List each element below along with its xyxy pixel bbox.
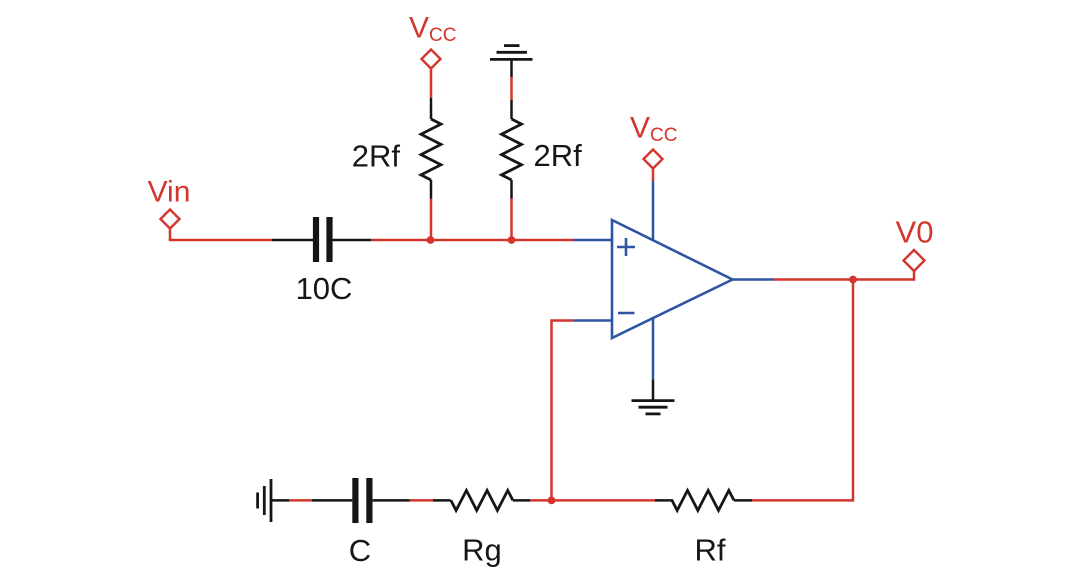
ground (op-amp) [632,379,675,414]
wire output node down to feedback corner (red) [752,280,853,501]
svg-text:Rg: Rg [462,533,502,568]
node B junction dot [508,236,516,244]
wire Vcc terminal to resistor 2Rf left (red) [430,69,433,99]
wire capacitor C right lead (black) [373,499,410,502]
node D junction dot [548,497,556,505]
wire Vcc to op-amp top (blue) [652,181,655,241]
terminal Vin (diamond) [161,210,180,229]
op-amp U1 [612,220,733,338]
wire capacitor 10C right lead (black) [333,239,371,242]
wire inverting input segment (blue) [574,319,612,322]
wire Vcc diamond stub (red) [652,169,655,182]
wire V0 stub [913,271,916,281]
svg-text:10C: 10C [296,271,353,306]
wire node D to resistor Rg (red) [530,499,551,502]
svg-text:Rf: Rf [695,533,726,568]
wire noninverting input segment (blue) [574,239,612,242]
wire op-amp bottom to ground (blue) [652,317,655,379]
capacitor C [355,478,369,523]
wire resistor 2Rf left to node A (red) [430,199,433,241]
resistor 2Rf (left, vertical) [421,98,441,199]
wire node D up to inverting input (red) [552,321,575,501]
wire capacitor to op-amp noninverting input (red) [371,239,574,242]
node C junction dot (output) [849,276,857,284]
svg-text:2Rf: 2Rf [534,138,583,173]
svg-text:Vin: Vin [148,176,191,209]
resistor 2Rf (right, vertical) [502,100,522,199]
wire Rf to node D (red) [552,499,656,502]
node A junction dot [427,236,435,244]
wire output to terminal V0 (red) [774,278,914,281]
wire Rg to capacitor C (red) [410,499,434,502]
terminal V0 (diamond) [904,250,925,271]
wire op-amp output (blue) [733,278,775,281]
terminal Vcc left (diamond) [422,50,441,69]
wire to left ground (red) [289,499,312,502]
svg-text:2Rf: 2Rf [352,138,401,173]
svg-text:V0: V0 [896,214,934,249]
wire capacitor C left lead (black) [312,499,352,502]
wire Vin stub [169,229,172,241]
ground (bottom-left, sideways) [258,479,289,522]
wire top ground to resistor 2Rf right (red) [510,77,513,100]
ground (top, inverted) [490,46,533,77]
wire capacitor 10C left lead (black) [272,239,313,242]
terminal Vcc op-amp (diamond) [644,150,663,169]
resistor Rf (horizontal) [655,490,752,510]
resistor Rg (horizontal) [433,490,530,510]
capacitor 10C [316,217,330,262]
wire resistor 2Rf right to node B (red) [510,199,513,241]
wire Vin to capacitor 10C (red) [169,239,272,242]
svg-text:C: C [349,533,371,568]
